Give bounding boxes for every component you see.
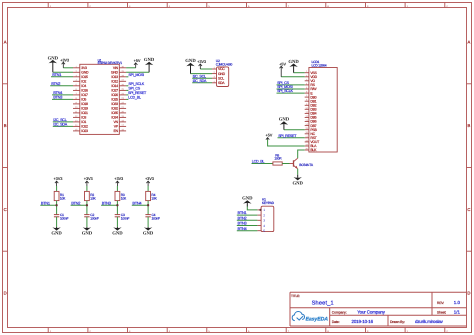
ground flag at U1 left — [48, 55, 59, 72]
resistor R3 10K — [115, 191, 127, 200]
svg-text:IO26: IO26 — [111, 93, 118, 97]
power flag +5V at U1 — [134, 58, 141, 68]
ground flag at LCD VSS — [288, 59, 299, 73]
svg-text:5: 5 — [263, 229, 265, 233]
svg-text:SPI_MOSI: SPI_MOSI — [128, 73, 144, 77]
svg-text:Company:: Company: — [332, 310, 347, 314]
svg-text:C: C — [4, 207, 7, 212]
ground flag below C3 — [112, 227, 123, 237]
capacitor C4 100nF — [145, 213, 160, 220]
svg-text:SCL: SCL — [218, 76, 224, 80]
svg-text:GND: GND — [218, 72, 226, 76]
svg-text:I2C_SDA: I2C_SDA — [53, 123, 67, 127]
display LCD1 LCD 12864 body — [309, 60, 337, 152]
svg-text:+3V3: +3V3 — [145, 176, 155, 181]
svg-text:IO13: IO13 — [111, 75, 118, 79]
wire C2 to ground — [86, 217, 88, 227]
svg-text:LCD_BL: LCD_BL — [128, 96, 141, 100]
svg-text:GND: GND — [288, 59, 299, 65]
svg-text:GND: GND — [185, 58, 196, 64]
wire +3V3 to R3 — [116, 186, 118, 191]
svg-text:+3V3: +3V3 — [114, 176, 124, 181]
svg-text:+3V3: +3V3 — [53, 176, 63, 181]
wire + node SPI_SCLK at LCD E — [277, 89, 305, 93]
wire + node I2C_SDA at U2 — [192, 79, 212, 83]
wire + node SPI_CS at LCD RS — [277, 81, 305, 85]
svg-text:BC546-TA: BC546-TA — [299, 163, 314, 167]
wire LCD BLK to Q1 collector — [298, 150, 305, 158]
svg-text:VIN: VIN — [113, 66, 119, 70]
svg-text:BLK: BLK — [310, 148, 317, 152]
svg-text:IO22: IO22 — [81, 125, 88, 129]
wire + node SPI_MOSI at LCD R/W — [277, 85, 305, 89]
svg-text:GND: GND — [82, 231, 93, 237]
svg-text:LCD 12864: LCD 12864 — [312, 64, 327, 68]
wire + node BTN4 at U1 IO17 — [52, 90, 73, 95]
svg-text:Sheet_1: Sheet_1 — [312, 300, 334, 307]
power flag +3V3 above R4 — [145, 176, 155, 186]
svg-text:GND: GND — [279, 117, 290, 123]
svg-text:IO35: IO35 — [111, 111, 118, 115]
capacitor C1 100nF — [54, 213, 69, 220]
junction node at R1/C1 — [55, 204, 57, 206]
resistor R2 10K — [85, 191, 97, 200]
svg-text:GND: GND — [144, 57, 155, 63]
svg-text:GND: GND — [81, 71, 89, 75]
junction node at R3/C3 — [116, 204, 118, 206]
ground flag at U1 right — [144, 57, 155, 72]
svg-text:IO1: IO1 — [81, 120, 86, 124]
junction node at H1 pin1 — [259, 209, 261, 211]
svg-text:IO19: IO19 — [81, 107, 88, 111]
svg-text:TITLE:: TITLE: — [291, 294, 300, 298]
svg-text:+3V3: +3V3 — [60, 57, 70, 62]
wire + node BTN2 at U1 IO4 — [50, 81, 73, 86]
wire C3 to ground — [116, 217, 118, 227]
wire Q1 emitter to ground — [297, 169, 299, 175]
wire + node SPI_RESET at LCD RST — [278, 134, 305, 138]
svg-text:SPI_CS: SPI_CS — [128, 87, 140, 91]
svg-text:+5V: +5V — [134, 58, 141, 63]
junction node at R2/C2 — [86, 204, 88, 206]
wire + node BTN1 — [40, 200, 56, 205]
svg-text:IO32: IO32 — [111, 107, 118, 111]
wire + node BTN2 at H1 pin3 — [237, 215, 258, 220]
svg-text:I2C_SCL: I2C_SCL — [193, 74, 206, 78]
svg-text:2: 2 — [263, 213, 265, 217]
resistor R6 100R — [252, 153, 290, 165]
svg-text:GND: GND — [242, 196, 253, 202]
svg-text:SPI_SCLK: SPI_SCLK — [128, 82, 144, 86]
svg-text:B: B — [4, 123, 7, 128]
svg-text:100nF: 100nF — [90, 217, 99, 221]
svg-text:IO12: IO12 — [111, 80, 118, 84]
power flag +5V at LCD VDD — [279, 61, 286, 76]
wire + node BTN3 at H1 pin4 — [237, 221, 258, 226]
wire C4 to ground — [147, 217, 149, 227]
transistor Q1 BC546-TA — [290, 158, 314, 169]
svg-text:100nF: 100nF — [121, 217, 130, 221]
svg-text:3V3: 3V3 — [81, 66, 87, 70]
svg-text:Sheet:: Sheet: — [437, 311, 446, 315]
svg-text:GND: GND — [111, 71, 119, 75]
svg-text:IO23: IO23 — [81, 129, 88, 133]
power flag +3V3 at U2 — [197, 59, 207, 69]
IC U1 ESP32 DEVKITV1 — [80, 58, 122, 134]
title block — [290, 292, 467, 326]
wire + node SPI_SCLK at U1 IO14 — [126, 82, 145, 86]
svg-text:IO16: IO16 — [81, 89, 88, 93]
U1 left pins 1-15 — [73, 65, 89, 133]
ground flag at U2 — [185, 58, 196, 73]
wire + node BTN3 — [101, 200, 117, 205]
wire + node SPI_RESET at U1 IO26 — [126, 91, 147, 95]
svg-text:IO18: IO18 — [81, 102, 88, 106]
svg-text:100R: 100R — [274, 157, 282, 161]
EasyEDA logo — [292, 312, 328, 323]
svg-text:BTN3: BTN3 — [102, 200, 111, 205]
svg-text:1.0: 1.0 — [454, 300, 461, 305]
junction node at R4/C4 — [147, 204, 149, 206]
svg-text:CJMCU-680: CJMCU-680 — [216, 62, 233, 66]
wire LCD BLA to +5V — [268, 140, 305, 146]
svg-text:GND: GND — [143, 231, 154, 237]
LCD1 pins 1-20 — [305, 70, 320, 152]
wire + node BTN1 at U1 IO15 — [51, 72, 73, 77]
power flag +5V at LCD BLA — [266, 133, 273, 140]
wire U1 3V3 to +3V3 — [63, 67, 73, 69]
svg-text:SDA: SDA — [218, 81, 225, 85]
ground flag below C1 — [51, 227, 62, 237]
svg-text:4: 4 — [263, 224, 265, 228]
wire +3V3 to R4 — [147, 186, 149, 191]
wire + node BTN4 — [132, 200, 148, 205]
wire + node I2C_SDA at U1 — [53, 123, 73, 127]
wire U1 GND pin to ground — [53, 71, 73, 73]
svg-text:B: B — [468, 123, 471, 128]
svg-text:I2C_SCL: I2C_SCL — [53, 118, 66, 122]
capacitor C3 100nF — [115, 213, 130, 220]
svg-text:2019-10-16: 2019-10-16 — [352, 319, 374, 324]
svg-text:KEYPAD: KEYPAD — [262, 201, 275, 205]
svg-text:LCD_BL: LCD_BL — [252, 159, 265, 163]
svg-text:IO5: IO5 — [81, 98, 86, 102]
wire + node BTN2 — [71, 200, 87, 205]
svg-text:BTN3: BTN3 — [53, 95, 62, 100]
svg-text:IO34: IO34 — [111, 116, 118, 120]
resistor R1 10K — [54, 191, 66, 200]
svg-text:A: A — [4, 39, 7, 44]
H1 pins 1-5 — [257, 208, 265, 233]
U1 right pins 16-30 — [111, 65, 126, 133]
svg-text:+5V: +5V — [266, 133, 273, 138]
svg-text:GND: GND — [51, 231, 62, 237]
wire + node SPI_MOSI at U1 IO13 — [126, 73, 144, 77]
wire R1 to C1 — [56, 201, 58, 215]
svg-text:GND: GND — [292, 181, 303, 187]
wire U1 right GND to ground — [126, 71, 149, 73]
svg-text:+3V3: +3V3 — [84, 176, 94, 181]
power flag +3V3 at U1 — [60, 57, 70, 67]
wire LCD PSB to ground — [284, 129, 305, 131]
wire R2 to C2 — [86, 201, 88, 215]
svg-text:VCC: VCC — [218, 67, 225, 71]
svg-text:BTN2: BTN2 — [51, 81, 60, 86]
title block texts — [291, 294, 460, 324]
node LCD_BL label — [252, 159, 265, 163]
svg-text:D: D — [4, 291, 7, 296]
resistor R4 10K — [146, 191, 158, 200]
ground flag below Q1 — [292, 175, 303, 187]
sensor module U2 CJMCU-680 body — [216, 59, 233, 87]
wire ground to H1 pin1 — [247, 207, 257, 210]
svg-text:SPI_RESET: SPI_RESET — [128, 91, 147, 95]
wire + node I2C_SCL at U2 — [192, 74, 212, 78]
svg-text:BTN1: BTN1 — [52, 72, 61, 77]
svg-text:100nF: 100nF — [60, 217, 69, 221]
wire +3V3 to R1 — [56, 186, 58, 191]
svg-text:REV:: REV: — [437, 301, 444, 305]
ground flag below C4 — [143, 227, 154, 237]
svg-text:IO14: IO14 — [111, 84, 118, 88]
wire + node BTN1 at H1 pin2 — [237, 210, 258, 215]
wire +3V3 to R2 — [86, 186, 88, 191]
svg-text:BTN4: BTN4 — [238, 226, 248, 231]
wire R4 to C4 — [147, 201, 149, 215]
svg-text:BTN2: BTN2 — [71, 200, 80, 205]
svg-text:A: A — [468, 39, 471, 44]
wire U1 VIN to +5V — [126, 67, 136, 69]
svg-text:+3V3: +3V3 — [197, 59, 207, 64]
svg-text:IO3: IO3 — [81, 116, 86, 120]
wire U2 GND to ground — [191, 73, 213, 75]
ground flag below C2 — [82, 227, 93, 237]
svg-text:BTN4: BTN4 — [132, 200, 142, 205]
svg-text:IO15: IO15 — [81, 75, 88, 79]
svg-text:Drawn By:: Drawn By: — [390, 320, 405, 324]
wire + node I2C_SCL at U1 — [53, 118, 73, 122]
power flag +3V3 above R1 — [53, 176, 63, 186]
svg-text:IO33: IO33 — [111, 102, 118, 106]
svg-text:Your Company: Your Company — [357, 310, 386, 315]
capacitor C2 100nF — [84, 213, 99, 220]
svg-text:dzurik.miroslav: dzurik.miroslav — [415, 319, 444, 324]
svg-text:GND: GND — [112, 231, 123, 237]
svg-text:IO21: IO21 — [81, 111, 88, 115]
wire LCD VDD to +5V — [281, 76, 305, 78]
svg-text:IO25: IO25 — [111, 98, 118, 102]
svg-text:EasyEDA: EasyEDA — [306, 316, 329, 322]
U2 pins 1-4 — [212, 67, 226, 86]
svg-text:IO17: IO17 — [81, 93, 88, 97]
ground flag at H1 — [242, 196, 253, 207]
wire R3 to C3 — [116, 201, 118, 215]
power flag +3V3 above R2 — [84, 176, 94, 186]
svg-text:IO4: IO4 — [81, 84, 86, 88]
svg-text:BTN1: BTN1 — [41, 200, 50, 205]
wire U2 VCC to +3V3 — [200, 68, 212, 70]
connector H1 KEYPAD body — [261, 197, 275, 231]
wire + node LCD_BL at U1 IO25 — [126, 96, 141, 100]
ground flag at LCD PSB — [279, 117, 290, 130]
svg-text:Date:: Date: — [332, 320, 340, 324]
svg-text:1: 1 — [263, 208, 265, 212]
svg-text:I2C_SDA: I2C_SDA — [193, 79, 207, 83]
power flag +3V3 above R3 — [114, 176, 124, 186]
svg-text:1/1: 1/1 — [454, 310, 461, 315]
svg-text:100nF: 100nF — [152, 217, 161, 221]
wire + node SPI_CS at U1 IO27 — [126, 87, 141, 91]
wire LCD VSS to ground — [294, 72, 305, 74]
svg-text:3: 3 — [263, 219, 265, 223]
svg-text:SPI_RESET: SPI_RESET — [278, 134, 297, 138]
wire + node BTN4 at H1 pin5 — [237, 226, 258, 231]
svg-text:SPI_SCLK: SPI_SCLK — [277, 89, 293, 93]
svg-text:GND: GND — [48, 55, 59, 61]
wire C1 to ground — [56, 217, 58, 227]
svg-text:C: C — [467, 207, 470, 212]
wire + node BTN3 at U1 IO5 — [52, 95, 73, 100]
svg-text:D: D — [467, 291, 470, 296]
svg-text:ESP32 DEVKITV1: ESP32 DEVKITV1 — [98, 61, 123, 65]
svg-text:+5V: +5V — [279, 61, 286, 66]
svg-text:IO2: IO2 — [81, 80, 86, 84]
svg-text:IO27: IO27 — [111, 89, 118, 93]
